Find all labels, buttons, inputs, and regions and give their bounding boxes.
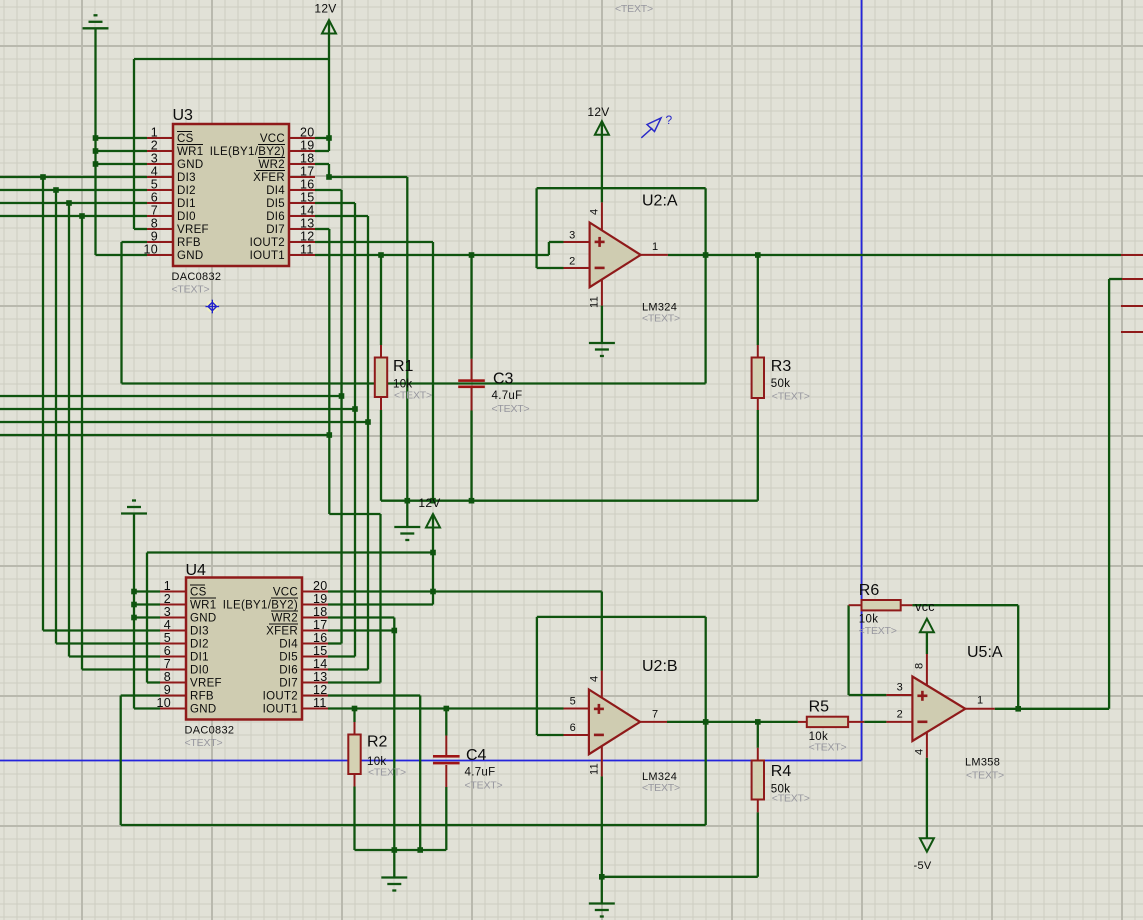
svg-text:DI6: DI6 <box>266 211 285 223</box>
svg-text:ILE(BY1/BY2): ILE(BY1/BY2) <box>223 600 298 612</box>
wire gnd net U3 vertical <box>94 28 96 255</box>
capacitor C3 4.7uF <box>458 371 529 416</box>
wire U4 RFB feedback rail <box>121 824 706 826</box>
junction DI1 bus <box>66 200 72 206</box>
junction XFER net <box>326 174 332 180</box>
wire bus DI1 row <box>0 202 147 204</box>
wire U4 WR2/XFER ground vertical <box>393 618 395 878</box>
wire U3 pin10 GND <box>96 254 148 256</box>
junction C4 top / IOUT1 <box>444 706 450 712</box>
ground (U4 CS/WR1/GND) <box>121 501 147 514</box>
sheet border horizontal (blue) <box>0 760 862 762</box>
svg-text:<TEXT>: <TEXT> <box>172 284 210 296</box>
wire U4 pin10 GND <box>134 707 160 709</box>
svg-text:16: 16 <box>300 178 315 192</box>
svg-text:U4: U4 <box>186 562 207 579</box>
svg-text:DAC0832: DAC0832 <box>172 271 222 283</box>
wire U5 output riser <box>1108 279 1110 709</box>
svg-text:3: 3 <box>164 605 171 619</box>
wire U3 pin8 VREF <box>134 228 147 230</box>
U4 right pin stubs 20-11 <box>302 592 328 709</box>
svg-text:DI0: DI0 <box>177 211 196 223</box>
wire R1 top vertical <box>380 255 382 345</box>
wire U2:A pin3 input <box>549 241 564 243</box>
junction gnd rail / WR2-XFER <box>405 498 411 504</box>
svg-text:15: 15 <box>300 191 315 205</box>
svg-text:5: 5 <box>151 178 158 192</box>
resistor R2 10k <box>348 734 406 779</box>
junction U3 pin3 / gnd <box>93 161 99 167</box>
R1 pin stubs <box>380 345 382 410</box>
wire WR2 to XFER link <box>328 164 330 177</box>
wire U2:A feedback right vertical <box>704 188 706 383</box>
svg-text:11: 11 <box>589 296 601 308</box>
junction 12V / U3 VCC <box>326 135 332 141</box>
svg-text:DI7: DI7 <box>279 678 298 690</box>
wire U2:B pin11 vertical <box>601 776 603 903</box>
wire U2:A feedback top <box>537 187 706 189</box>
wire U3 pin11 IOUT1 <box>315 254 549 256</box>
svg-text:IOUT1: IOUT1 <box>250 250 285 262</box>
ground (U3 CS/WR1/GND) <box>83 15 109 28</box>
svg-text:CS: CS <box>190 587 207 599</box>
svg-text:DI4: DI4 <box>279 639 298 651</box>
wire bus DI7 row <box>0 434 329 436</box>
wire U4 pin8 VREF <box>147 681 160 683</box>
R6 pin stubs <box>849 604 913 606</box>
junction U2:A output / R3 <box>755 252 761 258</box>
svg-text:GND: GND <box>177 159 203 171</box>
wire U3 pin1 CS <box>96 137 148 139</box>
svg-text:<TEXT>: <TEXT> <box>642 782 680 794</box>
junction U2:B gnd rail <box>599 874 605 880</box>
svg-text:DI5: DI5 <box>266 198 285 210</box>
svg-text:DI1: DI1 <box>177 198 196 210</box>
IC U4 DAC0832 <box>156 562 327 749</box>
op-amp U5:A <box>886 654 994 758</box>
svg-text:vcc: vcc <box>915 600 935 614</box>
svg-text:WR2: WR2 <box>259 159 285 171</box>
U3 right pin stubs 20-11 <box>289 138 315 255</box>
wire U4 pin20 VCC <box>328 590 602 592</box>
off-sheet pin stub row4 <box>1121 331 1143 333</box>
wire R4 bottom vertical <box>757 812 759 877</box>
R5 pin stubs <box>798 721 864 723</box>
wire R3 top vertical <box>757 255 759 345</box>
svg-text:U5:A: U5:A <box>967 644 1003 661</box>
svg-text:4: 4 <box>589 209 601 215</box>
wire IOUT2 vertical to gnd rail <box>432 242 434 501</box>
svg-text:5: 5 <box>570 696 576 708</box>
wire DI6 vertical <box>367 216 369 670</box>
wire R6 right to feedback <box>912 604 1018 606</box>
power terminal 12V (top) <box>314 2 336 34</box>
svg-text:11: 11 <box>588 763 600 775</box>
wire U3 pin14 DI6 <box>315 215 368 217</box>
svg-text:<TEXT>: <TEXT> <box>772 391 810 403</box>
resistor R6 10k <box>859 582 901 637</box>
wire U3 pin12 IOUT2 <box>315 241 433 243</box>
svg-text:6: 6 <box>151 191 158 205</box>
svg-text:<TEXT>: <TEXT> <box>465 780 503 792</box>
svg-text:R6: R6 <box>859 582 880 599</box>
wire U4 pin3 GND <box>134 616 160 618</box>
svg-text:4: 4 <box>913 749 925 755</box>
wire R4 top vertical <box>757 722 759 748</box>
wire C3 top vertical <box>470 255 472 359</box>
wire U3 pin15 DI5 <box>315 202 355 204</box>
svg-text:1: 1 <box>652 241 658 253</box>
svg-text:16: 16 <box>313 631 328 645</box>
wire WR2/XFER ground vertical <box>406 177 408 527</box>
resistor R4 50k <box>752 761 810 805</box>
junction DI7 bus <box>327 432 333 438</box>
junction U3 pin1 / gnd <box>93 135 99 141</box>
wire 12V top vertical <box>328 21 330 151</box>
svg-text:9: 9 <box>151 230 158 244</box>
svg-text:WR2: WR2 <box>272 613 298 625</box>
svg-text:U2:B: U2:B <box>642 658 678 675</box>
svg-text:DI1: DI1 <box>190 652 209 664</box>
svg-text:VCC: VCC <box>260 133 285 145</box>
wire U4 RFB vertical <box>120 696 122 826</box>
svg-text:2: 2 <box>897 709 903 721</box>
cursor pointer with ? <box>641 113 672 138</box>
wire U3 pin13 DI7 <box>315 228 329 230</box>
svg-text:12V: 12V <box>587 105 609 119</box>
wire output to edge stub row2 <box>1109 278 1122 280</box>
svg-text:2: 2 <box>569 256 575 268</box>
svg-text:R4: R4 <box>771 763 792 780</box>
svg-text:10: 10 <box>156 696 171 710</box>
svg-text:RFB: RFB <box>190 691 214 703</box>
svg-text:GND: GND <box>190 704 216 716</box>
wire DI7 vertical lower <box>379 514 381 683</box>
wire U5 pin4 to -5V <box>926 758 928 838</box>
svg-text:4: 4 <box>164 618 171 632</box>
svg-text:R1: R1 <box>393 358 414 375</box>
svg-text:WR1: WR1 <box>190 600 216 612</box>
svg-text:<TEXT>: <TEXT> <box>185 737 223 749</box>
wire U2:B pin6 input <box>537 734 564 736</box>
wire vcc to U5 pin8 <box>926 633 928 654</box>
C3 pin stubs <box>471 359 473 411</box>
svg-text:20: 20 <box>313 579 328 593</box>
wire U4 pin7 DI0 <box>82 668 160 670</box>
svg-text:10: 10 <box>143 243 158 257</box>
svg-text:LM358: LM358 <box>965 757 1000 769</box>
svg-text:7: 7 <box>164 657 171 671</box>
svg-text:3: 3 <box>569 230 575 242</box>
wire U3 RFB vertical <box>120 242 122 384</box>
svg-text:19: 19 <box>300 139 315 153</box>
text placeholder (top) <box>615 3 653 15</box>
svg-text:<TEXT>: <TEXT> <box>492 403 530 415</box>
svg-text:DI2: DI2 <box>190 639 209 651</box>
wire bus DI2 row <box>0 189 147 191</box>
svg-text:-5V: -5V <box>913 860 931 872</box>
op-amp U2:A <box>564 202 668 305</box>
wire analog ground rail <box>381 500 758 502</box>
svg-text:DI3: DI3 <box>190 626 209 638</box>
wire IOUT1 jog vertical <box>548 242 550 255</box>
wire DI5 vertical <box>354 203 356 657</box>
svg-text:20: 20 <box>300 126 315 140</box>
wire ground rail 2 <box>355 849 447 851</box>
svg-text:3: 3 <box>151 152 158 166</box>
svg-text:DI3: DI3 <box>177 172 196 184</box>
C4 pin stubs <box>445 736 447 788</box>
wire U2:B feedback left vertical <box>536 617 538 735</box>
wire U3 pin19 ILE <box>315 150 329 152</box>
junction gnd rail2 / IOUT2 <box>417 847 423 853</box>
svg-text:18: 18 <box>313 605 328 619</box>
wire 12V mid vertical <box>432 514 434 605</box>
ground (rail 2) <box>381 878 407 891</box>
svg-text:<TEXT>: <TEXT> <box>368 767 406 779</box>
svg-text:5: 5 <box>164 631 171 645</box>
R4 pin stubs <box>757 748 759 813</box>
wire U4 pin1 CS <box>134 590 160 592</box>
svg-text:17: 17 <box>313 618 328 632</box>
svg-text:12V: 12V <box>418 496 440 510</box>
wire U4 pin6 DI1 <box>69 655 160 657</box>
junction U4 gnd / pin2 <box>131 602 137 608</box>
svg-text:DI7: DI7 <box>266 224 285 236</box>
power terminal -5V <box>913 838 933 872</box>
ground (U2:B pin11) <box>589 904 615 917</box>
junction U2:A output / feedback <box>703 252 709 258</box>
U2:A labels <box>569 193 680 325</box>
svg-text:<TEXT>: <TEXT> <box>642 313 680 325</box>
wire U3 pin18 WR2 <box>315 163 329 165</box>
svg-text:<TEXT>: <TEXT> <box>615 3 653 15</box>
junction U4 XFER <box>392 628 398 634</box>
wire bus DI6 row <box>0 421 368 423</box>
wire U5 pin3 input <box>849 694 887 696</box>
U4 left pin stubs 1-10 <box>160 592 186 709</box>
svg-text:14: 14 <box>300 204 315 218</box>
svg-text:3: 3 <box>897 682 903 694</box>
wire U2:B feedback right vertical <box>705 617 707 825</box>
svg-text:12: 12 <box>300 230 315 244</box>
svg-text:50k: 50k <box>771 378 790 390</box>
wire C4 top vertical <box>445 709 447 736</box>
svg-text:13: 13 <box>313 670 328 684</box>
wire U2:A feedback left vertical <box>535 188 537 268</box>
wire U4 pin17 XFER <box>328 629 394 631</box>
svg-text:8: 8 <box>151 217 158 231</box>
wire U3 VREF vertical <box>133 59 135 229</box>
wire U4 pin11 IOUT1 <box>328 707 564 709</box>
svg-text:14: 14 <box>313 657 328 671</box>
U2:B labels <box>570 658 680 794</box>
svg-text:WR1: WR1 <box>177 146 203 158</box>
svg-text:DI2: DI2 <box>177 185 196 197</box>
wire U4 pin9 RFB <box>121 694 160 696</box>
svg-text:6: 6 <box>570 722 576 734</box>
wire R6 left vertical <box>847 605 849 695</box>
capacitor C4 4.7uF <box>433 747 502 792</box>
wire U2:B output <box>667 721 798 723</box>
wire U2:A output <box>668 254 1121 256</box>
svg-text:XFER: XFER <box>266 626 298 638</box>
svg-text:4.7uF: 4.7uF <box>492 390 523 402</box>
off-sheet pin stub row1 <box>1121 254 1143 256</box>
sheet border vertical (blue) <box>861 0 863 761</box>
resistor R5 10k <box>807 699 848 754</box>
wire U4 pin19 ILE <box>328 603 433 605</box>
svg-text:R3: R3 <box>771 358 792 375</box>
junction U4 gnd / pin1 <box>131 589 137 595</box>
svg-text:<TEXT>: <TEXT> <box>859 625 897 637</box>
wire U3 pin20 VCC <box>315 137 329 139</box>
junction 12V mid / VREF wire <box>430 550 436 556</box>
wire DI4 vertical <box>340 190 342 644</box>
wire C3 bottom vertical <box>470 411 472 501</box>
wire U4 pin2 WR1 <box>134 603 160 605</box>
svg-text:VREF: VREF <box>177 224 209 236</box>
svg-text:<TEXT>: <TEXT> <box>772 793 810 805</box>
R2 pin stubs <box>354 722 356 787</box>
wire U2:B pin4 vertical <box>601 592 603 671</box>
svg-text:18: 18 <box>300 152 315 166</box>
wire U4 pin18 WR2 <box>328 616 394 618</box>
svg-text:8: 8 <box>164 670 171 684</box>
U5:A labels <box>897 644 1004 782</box>
junction DI4 bus <box>339 393 345 399</box>
resistor R3 50k <box>752 358 810 403</box>
ground (U2:A pin11) <box>589 343 615 356</box>
svg-text:1: 1 <box>151 126 158 140</box>
svg-text:R5: R5 <box>809 699 830 716</box>
wire U5 output <box>995 708 1109 710</box>
junction U2:B output / feedback <box>703 719 709 725</box>
svg-text:4: 4 <box>588 676 600 682</box>
U3 left pin stubs 1-10 <box>147 138 173 255</box>
wire U4 pin12 IOUT2 <box>328 694 420 696</box>
wire U2:A pin11 to ground <box>601 306 603 343</box>
svg-text:2: 2 <box>164 592 171 606</box>
svg-text:VREF: VREF <box>190 678 222 690</box>
junction 12V mid / U4 VCC <box>430 589 436 595</box>
svg-text:<TEXT>: <TEXT> <box>394 390 432 402</box>
wire U3 pin9 RFB <box>122 241 148 243</box>
junction R2 top / IOUT1 <box>352 706 358 712</box>
svg-text:10k: 10k <box>859 614 878 626</box>
wire U4 VREF vertical <box>146 553 148 683</box>
svg-text:12V: 12V <box>314 2 336 16</box>
R3 pin stubs <box>757 345 759 410</box>
wire U3 pin3 GND <box>96 163 148 165</box>
svg-text:1: 1 <box>977 695 983 707</box>
wire bus DI3 row <box>0 176 147 178</box>
junction U5 output / feedback <box>1015 706 1021 712</box>
svg-text:DAC0832: DAC0832 <box>185 725 235 737</box>
power terminal vcc <box>915 600 935 632</box>
wire U2:B gnd to R4 rail <box>602 876 758 878</box>
svg-text:<TEXT>: <TEXT> <box>809 742 847 754</box>
op-amp U2:B <box>564 671 668 777</box>
wire bus DI4 row <box>0 395 342 397</box>
junction U4 gnd / pin3 <box>131 615 137 621</box>
junction R1 top / IOUT1 <box>378 252 384 258</box>
svg-text:DI5: DI5 <box>279 652 298 664</box>
wire U5 feedback vertical <box>1017 605 1019 709</box>
junction C3 top / IOUT1 <box>469 252 475 258</box>
junction gnd rail2 / WR2-XFER <box>392 847 398 853</box>
wire R5 right to U5 pin2 <box>864 721 886 723</box>
junction DI0 bus <box>79 213 85 219</box>
IC U3 DAC0832 <box>143 107 314 296</box>
wire DI0 vertical <box>81 216 83 670</box>
wire 12V to U3 VREF horizontal <box>134 58 329 60</box>
junction gnd rail / IOUT2 <box>430 498 436 504</box>
wire XFER net horizontal <box>329 176 407 178</box>
wire U4 IOUT2 vertical <box>419 696 421 851</box>
junction gnd rail / C3 <box>469 498 475 504</box>
wire U4 pin13 DI7 <box>328 681 381 683</box>
junction DI5 bus <box>352 406 358 412</box>
wire 12V to U4 VREF horizontal <box>147 551 433 553</box>
svg-text:VCC: VCC <box>273 587 298 599</box>
svg-text:13: 13 <box>300 217 315 231</box>
resistor R1 10k <box>375 358 432 402</box>
wire DI3 vertical <box>42 177 44 631</box>
wire 12V U2:A vertical <box>601 121 603 202</box>
svg-text:RFB: RFB <box>177 237 201 249</box>
svg-text:9: 9 <box>164 683 171 697</box>
svg-text:GND: GND <box>177 250 203 262</box>
wire U3 pin16 DI4 <box>315 189 342 191</box>
svg-text:17: 17 <box>300 165 315 179</box>
svg-text:R2: R2 <box>367 734 388 751</box>
junction DI6 bus <box>365 419 371 425</box>
wire U4 pin15 DI5 <box>328 655 355 657</box>
svg-text:4: 4 <box>151 165 158 179</box>
svg-text:?: ? <box>666 113 673 127</box>
svg-text:CS: CS <box>177 133 194 145</box>
svg-text:7: 7 <box>151 204 158 218</box>
svg-text:11: 11 <box>300 243 314 257</box>
svg-text:XFER: XFER <box>253 172 285 184</box>
junction DI3 bus <box>40 174 46 180</box>
power terminal 12V (mid) <box>418 496 440 528</box>
svg-text:19: 19 <box>313 592 328 606</box>
wire R3 bottom vertical <box>757 410 759 501</box>
wire R2 bottom vertical <box>353 787 355 851</box>
wire R2 top vertical <box>353 709 355 723</box>
svg-text:ILE(BY1/BY2): ILE(BY1/BY2) <box>210 146 285 158</box>
svg-text:6: 6 <box>164 644 171 658</box>
svg-text:U3: U3 <box>173 107 194 124</box>
svg-text:C4: C4 <box>466 747 487 764</box>
wire U4 pin5 DI2 <box>56 642 160 644</box>
wire DI1 vertical <box>68 203 70 657</box>
ground (analog rail) <box>394 527 420 540</box>
junction DI2 bus <box>53 187 59 193</box>
wire U4 pin4 DI3 <box>43 629 160 631</box>
svg-text:IOUT2: IOUT2 <box>263 691 298 703</box>
svg-text:7: 7 <box>652 709 658 721</box>
wire C4 bottom vertical <box>445 787 447 850</box>
wire U4 pin14 DI6 <box>328 668 368 670</box>
wire bus DI0 row <box>0 215 147 217</box>
svg-text:DI6: DI6 <box>279 665 298 677</box>
power terminal 12V (U2:A) <box>587 105 609 135</box>
wire U4 pin16 DI4 <box>328 642 342 644</box>
junction U3 pin2 / gnd <box>93 148 99 154</box>
